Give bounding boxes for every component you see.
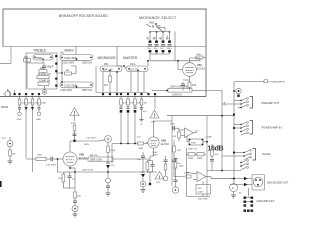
wire v2b2 anode (153, 121, 155, 128)
wire wiper to v2a (174, 32, 176, 61)
rotary switch SW1 midrange select (146, 22, 170, 33)
wire treble internal (26, 56, 28, 88)
resistor R42 (188, 153, 195, 161)
svg-text:ANODE: ANODE (90, 154, 98, 157)
wire bus x222 (206, 91, 222, 171)
svg-text:470K: 470K (28, 103, 34, 105)
potentiometer VR3 bass2 (60, 82, 93, 88)
svg-text:V2A: V2A (197, 63, 202, 67)
resistor R8 mid (104, 76, 112, 87)
junction slave (221, 170, 223, 172)
node LS2 circle (172, 187, 178, 193)
node LS circle (72, 206, 78, 212)
svg-text:100K: 100K (21, 103, 27, 105)
resistor R43 (173, 140, 182, 158)
resistor R45 (174, 158, 185, 172)
ground G5 (231, 192, 242, 199)
capacitor C22 electrolytic (106, 153, 115, 179)
svg-text:100n: 100n (167, 35, 169, 39)
capacitor C12 (160, 41, 165, 53)
svg-text:0.02 450V: 0.02 450V (86, 138, 97, 140)
wire u2 out (211, 177, 234, 179)
svg-text:BASS: BASS (65, 48, 75, 52)
junction bus2 (221, 115, 223, 117)
wire mid wiper down (102, 72, 104, 92)
wire v2b out (58, 159, 63, 172)
arrow A4 (126, 105, 129, 144)
jack J3 power amp in (233, 121, 253, 136)
svg-text:SLOPE 47K: SLOPE 47K (38, 73, 51, 76)
wire bass left (56, 61, 62, 74)
resistor R24 under master (120, 93, 128, 105)
resistor R35 (74, 192, 82, 198)
svg-text:1K: 1K (66, 69, 69, 72)
switch SW2 ground lift (244, 197, 254, 207)
svg-text:PREAMP OUT: PREAMP OUT (262, 101, 280, 105)
junction bass (61, 72, 63, 74)
ground G4 (141, 187, 146, 193)
junction mid (116, 71, 118, 73)
triode V2B2 (146, 128, 159, 160)
op-amp U1 (179, 128, 197, 138)
svg-text:10K: 10K (77, 196, 81, 198)
gain block 16dB (205, 137, 224, 153)
wire v2b anode up (70, 140, 98, 142)
resistor R12 v2a cathode (188, 82, 197, 88)
svg-text:680R: 680R (188, 158, 194, 160)
svg-text:500pF: 500pF (47, 66, 54, 69)
wire caps tap (157, 52, 164, 54)
svg-text:470K: 470K (34, 103, 40, 105)
capacitor C33 (174, 172, 178, 187)
node F circle (106, 178, 111, 193)
ground G3 (73, 212, 78, 218)
svg-text:100K: 100K (41, 103, 47, 105)
wire v2a anode (190, 58, 201, 61)
svg-text:4K7: 4K7 (104, 84, 109, 87)
svg-text:100K: 100K (196, 54, 202, 56)
resistor R46 (197, 153, 204, 161)
svg-text:SLAVE: SLAVE (262, 152, 271, 156)
capacitor C13 (167, 41, 173, 53)
svg-text:ECC83: ECC83 (161, 143, 169, 146)
svg-text:390K 0.5W: 390K 0.5W (90, 158, 103, 161)
wire fb down (187, 148, 207, 172)
node N1 circle (17, 105, 22, 121)
edge mark (0, 181, 2, 187)
svg-text:MIDRANGE: MIDRANGE (98, 56, 117, 60)
svg-text:GND: GND (36, 119, 41, 121)
svg-text:47n: 47n (161, 36, 163, 39)
junction ls (74, 171, 76, 173)
ground G6 (140, 113, 144, 124)
svg-text:0.022 400V: 0.022 400V (62, 62, 75, 65)
svg-text:0.022 250K: 0.022 250K (64, 83, 78, 87)
wire master top (117, 47, 126, 69)
svg-text:10n: 10n (60, 52, 65, 55)
svg-text:+21dB: +21dB (205, 137, 212, 139)
pads under sw2 (244, 210, 254, 212)
ground G1 (8, 156, 13, 164)
wire grid bus (26, 158, 36, 160)
svg-text:1M: 1M (144, 103, 147, 105)
resistor R44 (184, 173, 191, 178)
junction gb1 (120, 143, 136, 145)
junction v2a grid (177, 60, 179, 62)
wire master r (143, 72, 145, 92)
wire bass mid (71, 66, 76, 74)
chain x165 (163, 156, 168, 181)
node E circle (230, 184, 238, 192)
relay K1 (196, 185, 211, 195)
arrow A3 (119, 105, 122, 144)
svg-text:22n: 22n (154, 36, 156, 39)
svg-text:25K: 25K (104, 63, 109, 66)
svg-text:GROUND LIFT: GROUND LIFT (257, 199, 276, 203)
potentiometer VR4 midrange 25K (100, 63, 122, 71)
midrange master box (96, 66, 148, 93)
warning triangle W2 (150, 110, 159, 123)
arrow A1 (25, 107, 28, 111)
svg-text:100R: 100R (184, 173, 190, 175)
resistor R2 1M (24, 56, 31, 62)
svg-text:100K: 100K (138, 148, 144, 150)
node D circle (233, 88, 241, 97)
wire cathode node (70, 167, 75, 169)
capacitor C10 (147, 41, 152, 53)
wire down to LS (74, 168, 76, 192)
svg-text:10n: 10n (148, 36, 150, 39)
svg-text:22K: 22K (177, 150, 181, 152)
svg-text:220K 0.5W 100K: 220K 0.5W 100K (170, 86, 188, 89)
resistor R23 (38, 93, 47, 105)
resistor R25 (127, 93, 135, 105)
arrow A5 (133, 105, 136, 144)
pads under v2a (147, 93, 156, 109)
wire box internals (174, 166, 185, 177)
wire select bus (150, 60, 200, 62)
junction r13 (166, 90, 168, 92)
capacitor C27 electrolytic (141, 162, 145, 181)
capacitor C4 comp (38, 80, 50, 86)
svg-text:GND: GND (17, 119, 22, 121)
label cap bank row (146, 38, 170, 40)
svg-text:0.022 250K: 0.022 250K (64, 56, 78, 60)
frame top border (3, 9, 206, 97)
wire bus x234 (233, 82, 235, 184)
op-amp U2 (187, 172, 212, 182)
wire r8 down (109, 82, 111, 92)
board bottom bus wire (0, 96, 206, 98)
junction bplus chain (107, 171, 109, 173)
wire sw2 up (248, 188, 250, 197)
svg-text:SW1: SW1 (149, 22, 155, 25)
wire offpage top (234, 81, 264, 83)
capacitor C11 (154, 41, 159, 53)
capacitor C30 (170, 124, 179, 131)
junction bus (233, 113, 235, 115)
wire 220k bus (75, 171, 95, 173)
svg-text:A: A (232, 186, 234, 190)
wire treble wiper (27, 60, 43, 63)
wire mid t2 down (109, 72, 111, 76)
potentiometer VR5 master 1M (126, 63, 148, 71)
wire sw to caps (150, 32, 170, 41)
svg-text:FROM: FROM (1, 106, 8, 109)
board pads left group (14, 90, 16, 95)
resistor R41 feedback (187, 131, 208, 151)
wire v2a grid (178, 61, 183, 70)
wire input feed (0, 63, 11, 65)
svg-text:250K LIN: 250K LIN (82, 62, 92, 65)
capacitor C14 v2a bypass (181, 83, 185, 88)
resistor R33 (107, 142, 116, 152)
capacitor C26 right chain (137, 152, 145, 162)
svg-text:1M: 1M (12, 154, 15, 156)
pad P5 (42, 86, 47, 94)
svg-text:1K5: 1K5 (192, 84, 197, 87)
board left edge (10, 47, 12, 64)
svg-text:100K 1%: 100K 1% (188, 149, 197, 151)
junction cathode (69, 167, 71, 169)
jack J4 lower contacts (240, 159, 248, 169)
svg-text:MID: MID (157, 26, 161, 28)
wire k1 (187, 172, 211, 197)
svg-text:600 OHM: 600 OHM (198, 198, 208, 200)
svg-text:470K: 470K (71, 123, 77, 125)
ground G2 (106, 193, 111, 196)
resistor R47 (210, 144, 220, 171)
capacitor C28 (140, 105, 148, 113)
resistor R4 slope 47K (37, 73, 51, 79)
svg-text:10K: 10K (137, 103, 141, 105)
resistor R31 390K (36, 155, 51, 161)
node N2 circle (36, 105, 41, 121)
svg-text:V2B: V2B (161, 139, 166, 143)
svg-text:390K: 390K (37, 155, 43, 157)
wire mid right (116, 72, 118, 92)
capacitor C20 (46, 157, 58, 167)
svg-text:100K: 100K (198, 192, 204, 194)
node TP1 circle (2, 137, 13, 147)
wire n33 down (32, 105, 34, 172)
wire caps common (150, 52, 170, 54)
junction bass2 (61, 81, 63, 83)
svg-text:100K: 100K (191, 142, 197, 144)
label V2B2 (161, 139, 169, 146)
svg-text:22K: 22K (40, 67, 45, 70)
XLR connector J5 (230, 175, 265, 191)
potentiometer VR1 treble 250K (33, 55, 53, 61)
resistor R37 grid stopper (137, 136, 148, 149)
svg-text:TREBLE: TREBLE (33, 48, 47, 52)
wire master wiper (137, 72, 139, 92)
resistor R27 (140, 93, 147, 105)
wire master leads (130, 72, 132, 92)
svg-text:250K: 250K (36, 56, 42, 60)
svg-text:0.022 400V: 0.022 400V (60, 89, 73, 92)
svg-text:1M A: 1M A (130, 63, 136, 66)
jack J4 slave (222, 149, 256, 161)
wire slave bus (207, 170, 241, 172)
resistor R13 220K (152, 86, 192, 97)
svg-text:220K 0.5W: 220K 0.5W (82, 170, 94, 172)
resistor R20 (18, 93, 27, 105)
arrow A2 (31, 107, 34, 111)
resistor R26 (134, 93, 142, 105)
svg-text:250K LIN: 250K LIN (82, 89, 92, 92)
midrange pads row (102, 93, 118, 95)
svg-text:450V: 450V (84, 144, 90, 146)
resistor R30 (9, 147, 16, 157)
svg-text:680R: 680R (197, 158, 203, 160)
svg-text:47K: 47K (173, 136, 177, 138)
capacitor C25 cathode2 (151, 161, 155, 173)
wire cathode bottom tie (63, 172, 75, 188)
jack J2 preamp out (222, 97, 253, 109)
resistor R34 cathode (58, 172, 65, 188)
svg-text:450V: 450V (153, 155, 159, 157)
treble section box (26, 53, 57, 89)
wire bass down (61, 73, 63, 82)
svg-text:16dB: 16dB (208, 146, 224, 153)
triode V2B (58, 141, 78, 168)
resistor R22 (31, 93, 40, 105)
potentiometer VR2 bass 250K (60, 55, 93, 61)
resistor R28 chain (71, 116, 77, 143)
label V2B (79, 153, 87, 160)
amp box right edge (206, 116, 208, 197)
wire v2a cathode bottom (183, 80, 190, 91)
label cap bank values (148, 35, 170, 39)
label V2A (197, 63, 205, 70)
capacitor C32 (172, 160, 181, 166)
capacitor C24 (73, 198, 77, 206)
wire box top (167, 115, 234, 117)
amp box outline (171, 116, 173, 186)
svg-text:COMP 1M: COMP 1M (39, 80, 50, 83)
resistor R6 10K (65, 69, 72, 75)
triode V2A (183, 58, 197, 82)
offpage symbol (264, 80, 285, 84)
svg-text:ECC83: ECC83 (79, 157, 87, 160)
svg-text:100n: 100n (167, 48, 173, 50)
resistor R21 (25, 93, 34, 105)
junction v2b (57, 158, 59, 160)
node B+ circle (98, 136, 111, 143)
capacitor C23 cathode bypass (68, 172, 77, 188)
board outline (3, 46, 206, 48)
wire n26 down (25, 105, 27, 158)
wire bus cont (95, 171, 157, 173)
wire grid bus v2b2 (112, 143, 138, 145)
warning triangle W1 (70, 108, 79, 118)
capacitor C2 250pF (42, 63, 54, 71)
junction master (123, 65, 125, 67)
wire bass top feed (75, 47, 77, 55)
svg-text:BREAKOFF ROCKER BOARD: BREAKOFF ROCKER BOARD (59, 14, 108, 18)
wire select to master (147, 60, 149, 66)
input jack J1 (3, 90, 11, 97)
node C circle (140, 181, 146, 187)
svg-text:ECC83: ECC83 (197, 67, 205, 70)
svg-text:POWER AMP IN: POWER AMP IN (269, 81, 286, 84)
svg-text:100K: 100K (110, 150, 116, 152)
svg-text:25K LIN: 25K LIN (103, 67, 112, 71)
svg-text:BALANCED OUT: BALANCED OUT (268, 181, 289, 185)
svg-text:0.02 250V: 0.02 250V (46, 165, 57, 167)
svg-text:100K: 100K (179, 166, 185, 168)
svg-text:MIDRANGE SELECT: MIDRANGE SELECT (139, 16, 177, 20)
wire r13 right (192, 90, 206, 92)
wire select down (149, 54, 151, 61)
svg-text:0.5W 1%: 0.5W 1% (172, 94, 183, 97)
wire v2b2 to box (154, 120, 173, 122)
resistor R40 (173, 130, 181, 141)
wire tie v2b2 (111, 144, 113, 164)
resistor R38 anode rail (77, 154, 150, 162)
treble pads column (55, 55, 57, 87)
resistor R11 anode stub (196, 54, 206, 59)
resistor R36 cathode2 (146, 161, 149, 173)
svg-text:100n: 100n (170, 124, 176, 126)
svg-text:MASTER: MASTER (123, 56, 138, 60)
svg-text:POWER AMP IN: POWER AMP IN (262, 126, 282, 130)
svg-text:V2B: V2B (79, 153, 84, 157)
wire cathode2 ties (147, 152, 158, 185)
warning triangle W3 (155, 172, 164, 184)
resistor R3 22K (39, 67, 47, 73)
